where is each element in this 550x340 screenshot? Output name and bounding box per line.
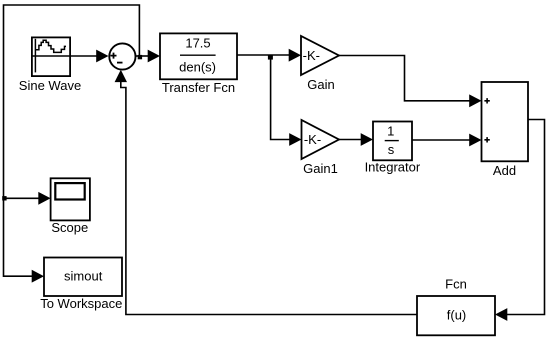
Transfer Fcn block xyxy=(160,33,237,79)
plus sign bottom xyxy=(484,137,489,142)
svg-text:Fcn: Fcn xyxy=(445,277,467,292)
wire: Gain1 to Integrator xyxy=(339,139,362,141)
junction on TF-Gain wire xyxy=(268,55,273,60)
svg-text:17.5: 17.5 xyxy=(185,36,210,51)
svg-text:1: 1 xyxy=(387,123,394,138)
Add block xyxy=(482,82,529,161)
wire: branch down to Gain1 xyxy=(271,55,290,140)
Gain block xyxy=(301,36,339,75)
svg-text:Gain1: Gain1 xyxy=(303,161,338,176)
junction at sum output xyxy=(138,55,142,59)
arrowhead into Add top xyxy=(469,94,481,107)
To Workspace block xyxy=(44,258,122,297)
wire: Sum to Transfer Fcn xyxy=(136,55,149,57)
svg-text:To Workspace: To Workspace xyxy=(40,296,122,311)
Gain1 block xyxy=(302,120,340,159)
minus sign xyxy=(117,62,123,64)
svg-text:Transfer Fcn: Transfer Fcn xyxy=(162,80,235,95)
arrowhead into Gain xyxy=(289,49,301,62)
sine icon vertical axis xyxy=(34,39,36,73)
arrowhead into To Workspace xyxy=(32,270,44,283)
arrowhead into Sum bottom xyxy=(115,70,127,82)
arrowhead into Integrator xyxy=(361,133,373,146)
Fcn block xyxy=(417,296,495,335)
plus sign xyxy=(111,53,117,59)
wire: Gain to Add top input xyxy=(339,56,470,101)
Sine Wave block xyxy=(32,37,70,76)
arrowhead into Scope xyxy=(38,192,50,205)
Scope block xyxy=(51,178,90,220)
wire: Add output down right side to Fcn xyxy=(507,120,545,315)
wire: feedback rail from Sum output up, across top, down left side to To Workspace xyxy=(4,5,140,276)
sum block xyxy=(109,43,135,69)
svg-text:Integrator: Integrator xyxy=(365,160,421,175)
arrowhead into Transfer Fcn xyxy=(148,50,160,63)
wire: Transfer Fcn to Gain xyxy=(237,54,290,56)
plus sign top xyxy=(484,98,489,103)
svg-text:den(s): den(s) xyxy=(179,60,216,75)
wire: Integrator to Add bottom input xyxy=(412,139,470,141)
wire: Fcn output left and up to Sum minus input xyxy=(121,81,417,315)
svg-text:-K-: -K- xyxy=(304,132,321,147)
svg-text:Gain: Gain xyxy=(307,77,334,92)
svg-text:Sine Wave: Sine Wave xyxy=(19,78,81,93)
svg-text:Add: Add xyxy=(493,163,516,178)
arrowhead into Fcn xyxy=(495,308,507,321)
scope screen xyxy=(55,183,84,199)
arrowhead into Gain1 xyxy=(289,133,301,146)
svg-text:Scope: Scope xyxy=(51,220,88,235)
arrowhead into Add bottom xyxy=(469,134,481,147)
wire: Sine Wave to Sum (also icon horizontal axis) xyxy=(32,55,98,57)
wire: branch to Scope xyxy=(4,197,40,199)
arrowhead into Sum xyxy=(96,50,108,63)
svg-text:f(u): f(u) xyxy=(447,308,467,323)
svg-text:-K-: -K- xyxy=(303,48,320,63)
sine icon stepped wave xyxy=(35,40,66,52)
svg-text:simout: simout xyxy=(64,268,103,283)
svg-text:s: s xyxy=(388,142,395,157)
Integrator block xyxy=(373,122,412,161)
junction on left rail at scope branch xyxy=(2,196,6,200)
